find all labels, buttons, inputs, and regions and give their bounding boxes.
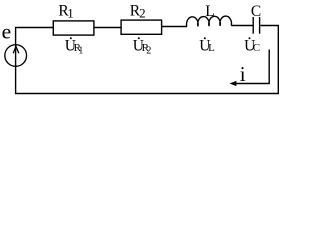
svg-text:L: L [208,42,215,54]
svg-text:1: 1 [67,5,74,20]
label U_C (voltage across C) [244,37,260,54]
voltage source e (circle with upward arrow) [5,45,27,94]
current arrow i [229,50,269,87]
resistor R2 [121,20,162,34]
svg-text:i: i [240,62,246,86]
label L [205,3,214,20]
label U_L (voltage across L) [199,37,215,54]
label R2 [130,3,146,21]
svg-text:1: 1 [78,45,83,56]
label i [240,62,246,86]
svg-text:e: e [2,20,12,44]
svg-text:C: C [251,3,261,20]
label U_R1 (voltage across R1) [65,37,84,56]
label R1 [58,3,73,21]
label C [251,3,261,20]
wire: top-left corner to R1 [16,28,54,45]
wire: between L and C [231,25,252,27]
svg-text:2: 2 [139,5,146,20]
wire: between R2 and L [162,26,187,28]
wire: bottom return wire [15,93,279,95]
label e [2,20,12,44]
capacitor C [253,17,259,34]
svg-text:2: 2 [146,45,151,56]
svg-text:L: L [205,3,214,20]
wire: between R1 and R2 [94,27,121,29]
wire: C to top-right corner and down right side [260,26,278,94]
inductor L [187,16,232,27]
resistor R1 [53,21,94,35]
label U_R2 (voltage across R2) [133,37,152,56]
svg-text:C: C [253,42,260,54]
